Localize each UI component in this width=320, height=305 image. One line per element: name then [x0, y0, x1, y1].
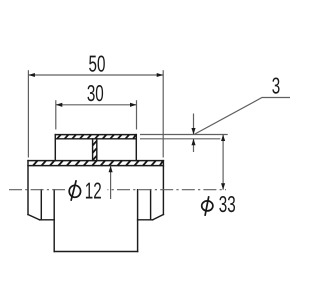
top knurled band top edge — [55, 134, 136, 136]
dimension 3 — [140, 98, 290, 153]
ext line right of 30 — [136, 100, 138, 129]
dimension 50 — [28, 70, 163, 157]
arrow up phi12 — [109, 166, 113, 173]
bottom cylinder left edge — [53, 190, 55, 252]
dimension phi12 — [110, 166, 112, 199]
arrow right of 30 — [130, 103, 137, 107]
flange right edge — [162, 161, 164, 215]
center line — [9, 189, 226, 191]
top section right edge — [135, 135, 137, 161]
slot hatching — [93, 141, 97, 161]
chamfer inner edge left — [40, 190, 42, 220]
dimension 30 — [56, 100, 137, 129]
arrow up to 3 — [191, 139, 195, 146]
arrow up phi33 — [221, 135, 225, 142]
dim line 50 — [28, 74, 163, 76]
flange band bottom edge — [28, 165, 163, 167]
arrow right of 50 — [157, 73, 164, 77]
arrow stem above — [193, 114, 195, 135]
dim line 30 — [56, 104, 137, 106]
svg-text:33: 33 — [219, 191, 236, 217]
top section left edge — [54, 135, 56, 161]
phi symbol of 12 — [69, 180, 80, 201]
right chamfer — [153, 215, 164, 220]
svg-text:50: 50 — [89, 51, 106, 77]
arrow left of 30 — [56, 103, 63, 107]
dim line phi33 — [222, 135, 224, 190]
leader line of 3 — [194, 98, 290, 135]
phi symbol of 33 — [202, 196, 213, 216]
chamfer inner edge right — [150, 190, 152, 220]
bottom cylinder right edge — [137, 190, 139, 252]
svg-text:12: 12 — [85, 178, 102, 204]
flange top edge — [28, 160, 163, 162]
svg-text:3: 3 — [272, 73, 280, 99]
bottom cylinder bottom edge — [54, 251, 137, 253]
arrow stem below — [193, 139, 195, 152]
left chamfer — [28, 215, 40, 220]
arrow down phi33 — [221, 183, 225, 190]
top knurled band bottom edge — [55, 138, 136, 140]
ext line upper of 3 — [140, 134, 228, 136]
svg-text:30: 30 — [87, 80, 104, 106]
ext line lower of 3 — [140, 138, 220, 140]
slot right edge — [96, 139, 98, 161]
body bottom edge left segment — [40, 219, 55, 221]
dimension phi33 — [222, 135, 224, 190]
ext line left of 50 — [27, 70, 29, 157]
slot left edge — [92, 139, 94, 161]
ext line left of 30 — [55, 100, 57, 129]
center line gap mask for phi12 text — [65, 186, 107, 195]
flange left edge — [27, 161, 29, 215]
part outline — [28, 135, 163, 252]
arrow down to 3 — [191, 128, 195, 135]
dim stem phi12 — [110, 166, 112, 199]
body bottom edge right segment — [138, 219, 153, 221]
knurl hatching top band — [57, 135, 136, 139]
arrow left of 50 — [28, 73, 35, 77]
knurl hatching flange band — [33, 161, 163, 166]
ext line right of 50 — [162, 70, 164, 157]
